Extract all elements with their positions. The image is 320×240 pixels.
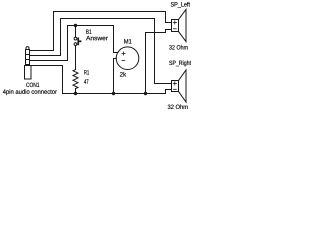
label R1 <box>84 70 89 74</box>
wire pin4 descent <box>62 66 64 94</box>
SP_Left minus sign <box>173 28 176 30</box>
label CON1 <box>26 83 39 87</box>
label 4pin audio connector <box>3 89 57 95</box>
junction dot M1/rail <box>112 92 115 95</box>
wire SP_Left minus stub <box>166 29 172 31</box>
wire pin1 horizontal <box>31 50 54 52</box>
wire ground rail <box>63 93 166 95</box>
wire pin4 horizontal <box>31 65 63 67</box>
junction dot R1/rail <box>74 92 77 95</box>
wire net L: line 1 top horizontal <box>54 11 166 13</box>
junction dot B1/line3 <box>74 24 77 27</box>
label 47 <box>84 79 88 83</box>
wire pin3 horizontal <box>31 60 68 62</box>
wire M1 plus descent <box>113 26 115 53</box>
wire B1 top <box>75 26 77 38</box>
SP_Right plus sign <box>173 82 176 84</box>
wire M1 plus stub <box>114 52 119 54</box>
wire M1 minus stub <box>114 58 117 60</box>
label Answer <box>86 36 108 40</box>
label SP_Left <box>171 2 190 8</box>
wire SP_Left minus horizontal <box>146 32 166 34</box>
label B1 <box>86 29 91 33</box>
resistor R1 zigzag <box>73 70 78 89</box>
wire R1 tail <box>75 89 77 94</box>
wire net MIC: line 3 horizontal <box>68 25 114 27</box>
wire B1 to R1 <box>75 46 77 70</box>
M1 minus sign <box>122 60 125 62</box>
wire SP_Left minus descent to rail <box>145 33 147 94</box>
wire SP_Right minus stub <box>166 89 172 91</box>
speaker SP_Right cone <box>179 70 187 102</box>
wire to SP_Left plus <box>166 22 172 24</box>
wire SP_Left minus jog <box>165 30 167 33</box>
label SP_Right <box>169 60 191 66</box>
microphone M1 circle <box>116 47 139 70</box>
wire net R: line 2 horizontal <box>61 18 155 20</box>
wire pin2 horizontal <box>31 55 61 57</box>
pushbutton B1 actuator <box>77 38 79 46</box>
wire corner 3 vertical <box>67 26 69 61</box>
label 32 Ohm <box>168 104 188 109</box>
speaker SP_Left body <box>172 20 179 32</box>
label M1 <box>124 39 131 43</box>
connector CON1 ring stack <box>26 50 30 66</box>
M1 plus sign <box>122 53 125 55</box>
wire corner 2 vertical <box>60 19 62 56</box>
wire corner 1 vertical <box>53 12 55 51</box>
wire net R: long descent <box>154 19 156 84</box>
wire SP_Right minus riser <box>165 90 167 94</box>
speaker SP_Right body <box>172 81 179 92</box>
wire net L: right descent <box>165 12 167 23</box>
label 2k <box>120 72 126 77</box>
pushbutton B1 contact top <box>74 37 77 40</box>
SP_Left plus sign <box>173 21 176 23</box>
label 32 Ohm <box>169 45 187 50</box>
pushbutton B1 contact bottom <box>74 43 77 46</box>
connector CON1 tip <box>26 47 29 50</box>
connector CON1 body <box>25 66 32 80</box>
SP_Right minus sign <box>173 88 176 90</box>
speaker SP_Left cone <box>179 9 187 41</box>
wire M1 minus descent to rail <box>113 59 115 94</box>
junction dot SP_Left minus/rail <box>144 92 147 95</box>
wire to SP_Right plus <box>155 83 172 85</box>
